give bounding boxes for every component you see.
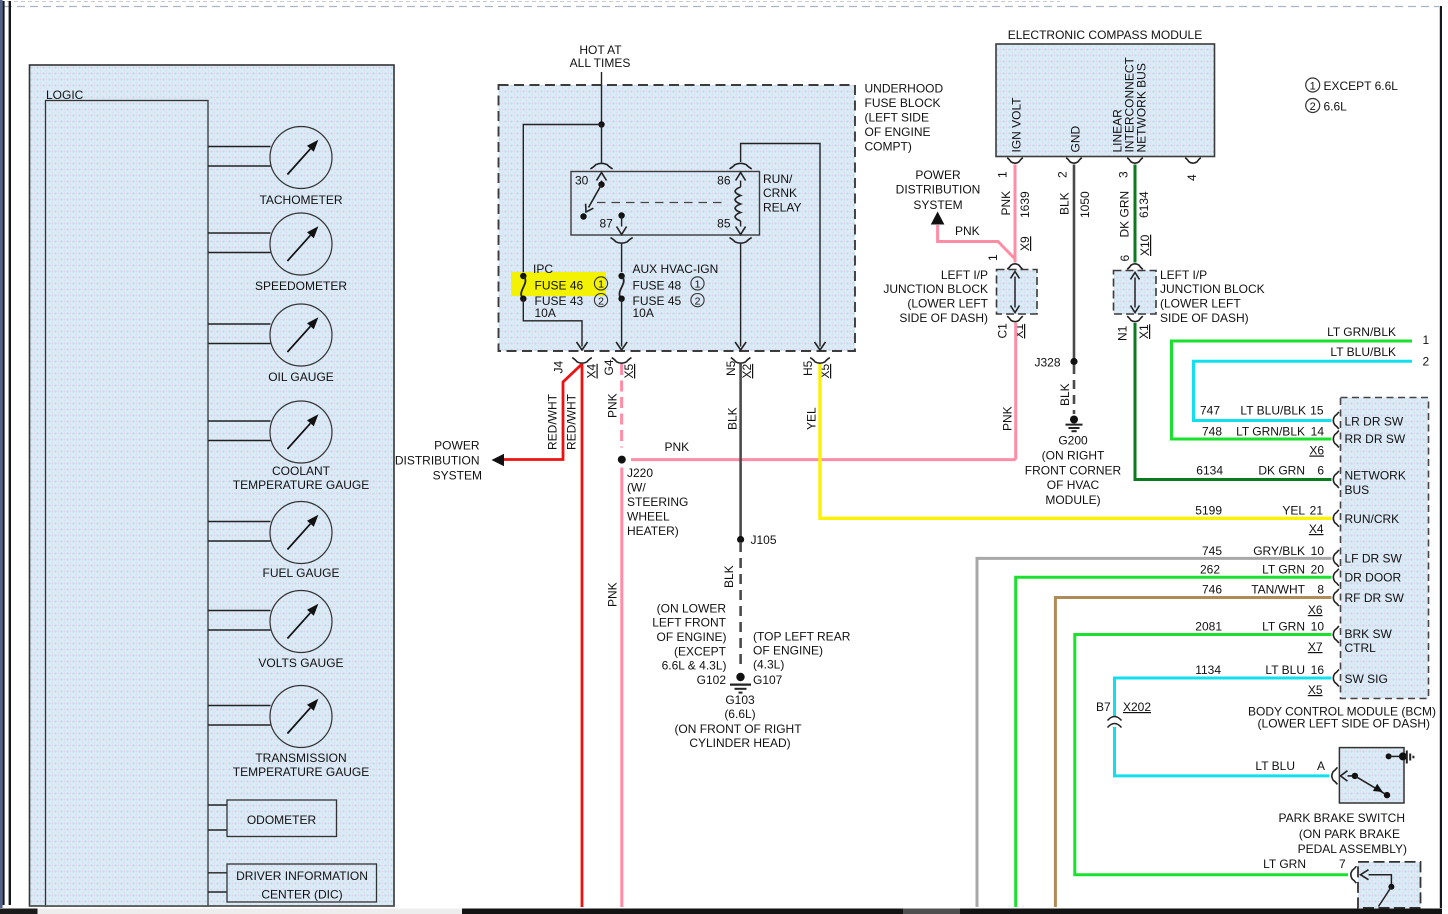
svg-text:6.6L & 4.3L): 6.6L & 4.3L) (662, 659, 727, 673)
label 745 GRY/BLK 10 (1202, 544, 1324, 558)
wire LT BLU 1134 to park brake switch (1115, 678, 1332, 716)
svg-text:2: 2 (1310, 101, 1316, 113)
svg-text:NETWORK BUS: NETWORK BUS (1135, 63, 1149, 152)
top dashed separator line (4, 6, 1439, 8)
svg-text:15: 15 (1310, 404, 1324, 418)
svg-text:7: 7 (1339, 857, 1346, 871)
svg-text:ELECTRONIC COMPASS MODULE: ELECTRONIC COMPASS MODULE (1008, 28, 1202, 42)
wire PNK dashed from G4 to J220 (620, 364, 623, 448)
svg-text:(ON RIGHT: (ON RIGHT (1042, 449, 1105, 463)
svg-text:HOT AT: HOT AT (579, 43, 622, 57)
svg-text:A: A (1317, 759, 1325, 773)
wire LT GRN 2081 to park brake applied switch (1075, 635, 1348, 875)
svg-text:LEFT I/P: LEFT I/P (941, 268, 988, 282)
svg-text:YEL: YEL (1282, 504, 1305, 518)
wire to relay pin 30 (601, 125, 603, 163)
svg-text:CYLINDER HEAD): CYLINDER HEAD) (689, 736, 790, 750)
svg-text:14: 14 (1311, 425, 1325, 439)
connector cup exit G4/X5 (612, 358, 632, 364)
svg-text:86: 86 (717, 174, 731, 188)
bottom scrollbar thumb (38, 909, 463, 914)
svg-text:AUX HVAC-IGN: AUX HVAC-IGN (633, 262, 719, 276)
svg-text:X6: X6 (1308, 603, 1323, 617)
label LOGIC (46, 88, 84, 102)
svg-text:SPEEDOMETER: SPEEDOMETER (255, 279, 347, 293)
svg-text:748: 748 (1202, 425, 1222, 439)
label RED/WHT second (565, 393, 579, 450)
svg-text:J220: J220 (627, 466, 653, 480)
label 747 LT BLU/BLK 15 (1200, 404, 1324, 418)
pin number 3 (1117, 171, 1131, 178)
BCM pin name LR DR SW (1345, 415, 1404, 429)
wire TAN/WHT 746 (1055, 598, 1331, 908)
wire IPC fuse to J4 exit (523, 299, 587, 351)
connector cup junction block top (C1) (1007, 264, 1023, 270)
connector cup relay pin 30 (590, 163, 612, 169)
svg-text:SYSTEM: SYSTEM (913, 198, 962, 212)
svg-text:X7: X7 (1308, 640, 1323, 654)
svg-text:BLK: BLK (726, 407, 740, 430)
label X6 (lower) (1308, 603, 1323, 617)
svg-text:LEFT I/P: LEFT I/P (1160, 268, 1207, 282)
arrow to power distribution system (left) (492, 454, 505, 467)
wire PNK horizontal J220 to junction block C1 (631, 458, 1016, 461)
BCM pin name NETWORK BUS (1345, 469, 1406, 498)
wire LT GRN/BLK circuit 1 (1172, 341, 1413, 439)
svg-text:G107: G107 (753, 673, 783, 687)
left border line 1 (3, 1, 5, 905)
connector cup BCM pin 10 (1333, 550, 1339, 567)
svg-text:LEFT FRONT: LEFT FRONT (652, 616, 726, 630)
label 6134 (1137, 191, 1151, 218)
svg-text:RUN/CRK: RUN/CRK (1345, 512, 1400, 526)
svg-text:CENTER (DIC): CENTER (DIC) (261, 888, 342, 902)
wire AUX fuse to G4 exit (616, 299, 627, 351)
gauge OIL GAUGE (208, 304, 334, 384)
label PNK above horizontal wire (665, 440, 690, 454)
odometer block (208, 800, 337, 837)
pin label G4 (602, 359, 616, 375)
svg-text:OF ENGINE): OF ENGINE) (656, 630, 726, 644)
pin label N1 (1116, 325, 1130, 341)
svg-text:PEDAL ASSEMBLY): PEDAL ASSEMBLY) (1298, 842, 1407, 856)
svg-text:ODOMETER: ODOMETER (247, 813, 317, 827)
label B7 (1096, 700, 1111, 714)
svg-text:J105: J105 (751, 533, 777, 547)
wire DK GRN 6134 from module pin 3 (1134, 165, 1137, 263)
svg-text:TAN/WHT: TAN/WHT (1251, 583, 1305, 597)
svg-text:DISTRIBUTION: DISTRIBUTION (395, 454, 480, 468)
svg-text:(4.3L): (4.3L) (753, 658, 784, 672)
svg-text:TEMPERATURE GAUGE: TEMPERATURE GAUGE (233, 765, 369, 779)
svg-text:PNK: PNK (955, 224, 980, 238)
label PNK (lower) (606, 582, 620, 607)
svg-text:745: 745 (1202, 544, 1222, 558)
label J220 (W/ STEERING WHEEL HEATER) (627, 466, 688, 538)
svg-text:X5: X5 (622, 363, 636, 378)
fuse AUX labels (633, 262, 719, 320)
wire LT BLU below connector (1115, 727, 1330, 776)
left I/P junction block (C1/X1) (997, 270, 1038, 315)
relay pin 85 label (717, 217, 731, 231)
svg-text:C1: C1 (996, 323, 1010, 339)
fuse AUX HVAC-IGN FUSE 48/45 10A (618, 273, 624, 302)
svg-text:VOLTS GAUGE: VOLTS GAUGE (258, 656, 343, 670)
svg-text:BUS: BUS (1345, 483, 1370, 497)
pin label X1 (left block) (1012, 323, 1026, 338)
svg-text:N1: N1 (1116, 325, 1130, 341)
circled 1 for FUSE 46 (594, 277, 607, 291)
gauge COOLANT TEMPERATURE GAUGE (208, 401, 369, 492)
BCM pin name RUN/CRK (1345, 512, 1400, 526)
svg-text:G103: G103 (725, 693, 755, 707)
svg-text:LT GRN: LT GRN (1262, 620, 1305, 634)
svg-text:DISTRIBUTION: DISTRIBUTION (896, 183, 981, 197)
svg-text:6.6L: 6.6L (1324, 100, 1348, 114)
label 5199 YEL 21 (1195, 504, 1323, 518)
label BLK (upper) (726, 407, 740, 430)
svg-text:H5: H5 (801, 360, 815, 376)
svg-text:YEL: YEL (805, 407, 819, 430)
svg-text:(LEFT SIDE: (LEFT SIDE (865, 111, 929, 125)
connector cup BCM pin 16 (1333, 670, 1339, 687)
connector cup junction block bottom (C1) (1007, 316, 1023, 322)
svg-text:RED/WHT: RED/WHT (565, 393, 579, 450)
label X4 (BCM) (1309, 522, 1324, 536)
connector cup relay pin 86 (730, 163, 752, 169)
svg-text:5199: 5199 (1195, 504, 1222, 518)
wire LT GRN 262 (1016, 577, 1332, 907)
module pin name LINEAR INTERCONNECT NETWORK BUS (1111, 56, 1149, 152)
park brake applied switch dashed box (1358, 862, 1421, 908)
svg-text:RELAY: RELAY (763, 201, 801, 215)
svg-text:SIDE OF DASH): SIDE OF DASH) (1160, 311, 1249, 325)
BCM pin name LF DR SW (1345, 552, 1403, 566)
connector cup exit J4/X4 (572, 358, 592, 364)
svg-text:X202: X202 (1123, 700, 1151, 714)
svg-text:LT GRN: LT GRN (1263, 857, 1306, 871)
svg-text:(ON FRONT OF RIGHT: (ON FRONT OF RIGHT (674, 722, 802, 736)
svg-text:1: 1 (1423, 333, 1430, 347)
svg-text:POWER: POWER (434, 439, 480, 453)
svg-text:PARK BRAKE SWITCH: PARK BRAKE SWITCH (1279, 811, 1405, 825)
svg-text:COOLANT: COOLANT (272, 464, 331, 478)
pin number 2 (top right) (1423, 355, 1430, 369)
highlight marker on FUSE 46 (511, 272, 606, 296)
circled 2 for FUSE 45 (691, 294, 704, 308)
fuse IPC labels (533, 262, 584, 320)
pin label C1 (996, 323, 1010, 339)
relay box RUN/CRNK RELAY (571, 172, 760, 236)
svg-text:HEATER): HEATER) (627, 524, 679, 538)
label PNK (1639 wire) (999, 191, 1013, 216)
svg-text:(ON LOWER: (ON LOWER (657, 602, 727, 616)
left border line 2 (9, 1, 11, 905)
svg-text:LT BLU/BLK: LT BLU/BLK (1330, 345, 1396, 359)
wire DK GRN to BCM NETWORK BUS (1135, 323, 1332, 480)
svg-text:X6: X6 (1309, 444, 1324, 458)
svg-text:16: 16 (1311, 663, 1325, 677)
svg-text:RED/WHT: RED/WHT (546, 393, 560, 450)
svg-text:RR DR SW: RR DR SW (1345, 432, 1406, 446)
svg-text:GND: GND (1069, 126, 1083, 153)
relay pin 87 label (600, 217, 614, 231)
svg-text:X1: X1 (1012, 323, 1026, 338)
svg-text:DR DOOR: DR DOOR (1345, 571, 1402, 585)
wire LT BLU/BLK circuit 2 (1194, 361, 1413, 420)
svg-text:OF ENGINE: OF ENGINE (865, 125, 931, 139)
svg-text:FUEL GAUGE: FUEL GAUGE (263, 566, 340, 580)
svg-text:B7: B7 (1096, 700, 1111, 714)
svg-text:(LOWER LEFT: (LOWER LEFT (1160, 297, 1241, 311)
BCM pin name RR DR SW (1345, 432, 1406, 446)
connector cup BCM pin 14 (1333, 431, 1339, 448)
label 1639 (1018, 191, 1032, 218)
node splice fuse feed (598, 121, 604, 127)
svg-text:G200: G200 (1058, 434, 1088, 448)
svg-text:LT GRN: LT GRN (1262, 563, 1305, 577)
svg-text:1: 1 (1310, 80, 1316, 92)
svg-text:2: 2 (1056, 171, 1070, 178)
legend circled 2 6.6L (1306, 99, 1347, 114)
svg-text:FRONT CORNER: FRONT CORNER (1025, 464, 1122, 478)
svg-text:BRK SW: BRK SW (1345, 627, 1393, 641)
svg-text:X1: X1 (1137, 324, 1151, 339)
pin number 1 (top right) (1423, 333, 1430, 347)
BCM pin name DR DOOR (1345, 571, 1402, 585)
label BODY CONTROL MODULE (BCM) (1248, 705, 1436, 731)
connector cup module pin 2 (1066, 158, 1082, 164)
pin label 7 (1339, 857, 1346, 871)
relay dashed actuation line (597, 202, 727, 204)
park brake switch contacts (1341, 771, 1391, 799)
label DK GRN (1118, 191, 1132, 238)
svg-text:20: 20 (1311, 563, 1325, 577)
pin label A (1317, 759, 1325, 773)
label G200 location (1025, 434, 1122, 508)
svg-text:(LOWER LEFT: (LOWER LEFT (907, 297, 988, 311)
svg-text:WHEEL: WHEEL (627, 510, 670, 524)
svg-text:IGN VOLT: IGN VOLT (1010, 97, 1024, 153)
wire to IPC fuse (523, 125, 601, 274)
connector cup module pin 4 (1185, 158, 1201, 164)
label YEL (805, 407, 819, 430)
relay pin 86 label (717, 174, 731, 188)
svg-text:1: 1 (996, 171, 1010, 178)
connector cup below relay pin 85 (730, 238, 752, 244)
label 748 LT GRN/BLK 14 (1202, 425, 1324, 439)
pin number 1 junction block (986, 254, 1000, 261)
svg-text:DRIVER INFORMATION: DRIVER INFORMATION (236, 869, 368, 883)
connector cup below relay pin 87 (611, 238, 633, 244)
svg-text:SW SIG: SW SIG (1345, 672, 1388, 686)
pin label X5 (622, 363, 636, 378)
svg-text:(TOP LEFT REAR: (TOP LEFT REAR (753, 630, 851, 644)
svg-text:J328: J328 (1034, 356, 1060, 370)
svg-text:BLK: BLK (1058, 192, 1072, 215)
svg-text:X5: X5 (1308, 683, 1323, 697)
right border line (1440, 6, 1442, 908)
svg-text:1134: 1134 (1195, 663, 1221, 677)
connector cup junction block top (N1) (1127, 264, 1143, 270)
svg-text:PNK: PNK (1001, 406, 1015, 431)
svg-text:4: 4 (1185, 174, 1199, 181)
label POWER DISTRIBUTION SYSTEM (pink) (896, 168, 981, 212)
svg-text:OF HVAC: OF HVAC (1047, 478, 1100, 492)
bottom scrollbar track gray segment (903, 909, 960, 914)
bottom scrollbar track (462, 909, 1442, 914)
svg-text:OIL GAUGE: OIL GAUGE (268, 370, 334, 384)
circled 1 for FUSE 48 (691, 277, 704, 291)
bottom scrollbar corner block (0, 909, 38, 914)
svg-text:2: 2 (1423, 355, 1430, 369)
splice J220 (618, 456, 626, 464)
label X10 (1138, 234, 1152, 256)
connector cup exit N5/X2 (731, 358, 751, 364)
pin number 4 (1185, 174, 1199, 181)
svg-text:SIDE OF DASH): SIDE OF DASH) (899, 311, 988, 325)
svg-text:85: 85 (717, 217, 731, 231)
splice J328 (1070, 358, 1077, 365)
svg-text:LT BLU: LT BLU (1265, 663, 1305, 677)
svg-text:RF DR SW: RF DR SW (1345, 591, 1405, 605)
svg-text:6134: 6134 (1137, 191, 1151, 218)
wire PNK junction block to J220 line (1014, 323, 1017, 460)
label UNDERHOOD FUSE BLOCK location (865, 82, 944, 154)
label X6 (upper) (1309, 444, 1324, 458)
label 1050 (1078, 191, 1092, 218)
connector cup BCM pin 15 (1333, 412, 1339, 429)
gauge TACHOMETER (208, 127, 343, 208)
label BLK (1050 wire) (1058, 192, 1072, 215)
pin label X4 (585, 363, 599, 378)
svg-text:(EXCEPT: (EXCEPT (674, 645, 727, 659)
svg-text:NETWORK: NETWORK (1345, 469, 1406, 483)
ground G102/G107/G103 (730, 673, 751, 693)
svg-text:1: 1 (986, 254, 1000, 261)
wire PNK down to bottom (620, 468, 623, 908)
left I/P junction block (N1/X1) (1114, 271, 1157, 315)
connector cup exit H5/X5 (810, 358, 830, 364)
top dashed border line (0, 1, 1060, 3)
connector cup BCM pin 8 (1333, 589, 1339, 606)
connector cup BCM pin 21 (1333, 510, 1339, 527)
svg-text:IPC: IPC (533, 262, 553, 276)
wire GRY/BLK 745 (977, 558, 1332, 907)
svg-text:BLK: BLK (722, 565, 736, 588)
gauge VOLTS GAUGE (208, 591, 344, 671)
BCM pin name RF DR SW (1345, 591, 1405, 605)
pin number 6 junction block (1118, 255, 1132, 262)
label HOT AT ALL TIMES (570, 43, 631, 70)
svg-text:(W/: (W/ (627, 481, 646, 495)
svg-text:PNK: PNK (606, 582, 620, 607)
svg-text:1639: 1639 (1018, 191, 1032, 218)
BCM pin name SW SIG (1345, 672, 1388, 686)
svg-text:LT BLU/BLK: LT BLU/BLK (1240, 404, 1306, 418)
svg-text:LT GRN/BLK: LT GRN/BLK (1236, 425, 1305, 439)
relay switch blade (580, 185, 601, 220)
svg-text:10A: 10A (633, 306, 654, 320)
label J328 (1034, 356, 1060, 370)
svg-text:N5: N5 (724, 360, 738, 376)
connector cup junction block bottom (N1) (1127, 316, 1143, 322)
connector cup bottom switch pin 7 (1351, 866, 1357, 883)
svg-text:LT GRN/BLK: LT GRN/BLK (1327, 325, 1396, 339)
svg-text:262: 262 (1200, 563, 1220, 577)
ground G200 (1066, 416, 1083, 432)
arrow to power distribution system (up) (931, 212, 945, 225)
svg-text:87: 87 (600, 217, 614, 231)
svg-text:PNK: PNK (665, 440, 690, 454)
svg-text:747: 747 (1200, 404, 1220, 418)
circled 2 for FUSE 43 (594, 294, 607, 308)
label LT BLU (park brake) (1255, 759, 1295, 773)
relay pin 86 terminal and coil (735, 173, 746, 235)
label LT GRN (bottom) (1263, 857, 1306, 871)
svg-text:X4: X4 (585, 363, 599, 378)
gauge TRANSMISSION TEMPERATURE GAUGE (208, 686, 369, 780)
svg-text:(ON PARK BRAKE: (ON PARK BRAKE (1299, 827, 1400, 841)
label PNK (branch) (955, 224, 980, 238)
svg-text:DK GRN: DK GRN (1258, 464, 1305, 478)
pin label X2 (740, 363, 754, 378)
park brake switch ground contact (1386, 751, 1414, 764)
label PNK (G4 wire) (606, 393, 620, 418)
wire relay 86 to H5 exit (741, 144, 826, 351)
label J105 (751, 533, 777, 547)
pin label H5 (801, 360, 815, 376)
wire RED/WHT down to bottom (581, 364, 584, 907)
label POWER DISTRIBUTION SYSTEM (left) (395, 439, 482, 483)
pin label J4 (552, 361, 566, 374)
gauge FUEL GAUGE (208, 502, 339, 581)
svg-text:RUN/: RUN/ (763, 172, 793, 186)
label BLK (lower) (722, 565, 736, 588)
svg-text:746: 746 (1202, 583, 1222, 597)
svg-text:TEMPERATURE GAUGE: TEMPERATURE GAUGE (233, 478, 369, 492)
svg-text:X10: X10 (1138, 234, 1152, 256)
relay pin 87 terminal (617, 212, 627, 234)
svg-text:FUSE 48: FUSE 48 (633, 279, 682, 293)
svg-text:LR DR SW: LR DR SW (1345, 415, 1404, 429)
label 6134 DK GRN 6 (1196, 464, 1324, 478)
electronic compass module box (996, 44, 1215, 157)
wire PNK 1639 from module pin 1 (1014, 165, 1017, 263)
svg-text:X4: X4 (1309, 522, 1324, 536)
label ground location lines (left) (652, 602, 726, 673)
relay pin 30 label (575, 174, 589, 188)
svg-text:LT BLU: LT BLU (1255, 759, 1295, 773)
BCM pin name BRK SW CTRL (1345, 627, 1393, 655)
svg-text:G4: G4 (602, 359, 616, 375)
legend circled 1 EXCEPT 6.6L (1306, 78, 1399, 93)
wire RED/WHT branch to power distribution (504, 364, 582, 460)
label LT GRN/BLK (top) (1327, 325, 1396, 339)
svg-text:X2: X2 (740, 363, 754, 378)
svg-text:POWER: POWER (915, 168, 961, 182)
svg-text:EXCEPT 6.6L: EXCEPT 6.6L (1324, 79, 1399, 93)
svg-text:FUSE BLOCK: FUSE BLOCK (865, 96, 941, 110)
svg-text:GRY/BLK: GRY/BLK (1253, 544, 1305, 558)
splice J105 (737, 536, 744, 543)
svg-text:10: 10 (1311, 620, 1325, 634)
svg-text:G102: G102 (697, 673, 727, 687)
svg-text:CRNK: CRNK (763, 186, 797, 200)
connector cup module pin 3 (1127, 158, 1143, 164)
svg-text:COMPT): COMPT) (865, 140, 912, 154)
svg-text:10A: 10A (535, 306, 556, 320)
